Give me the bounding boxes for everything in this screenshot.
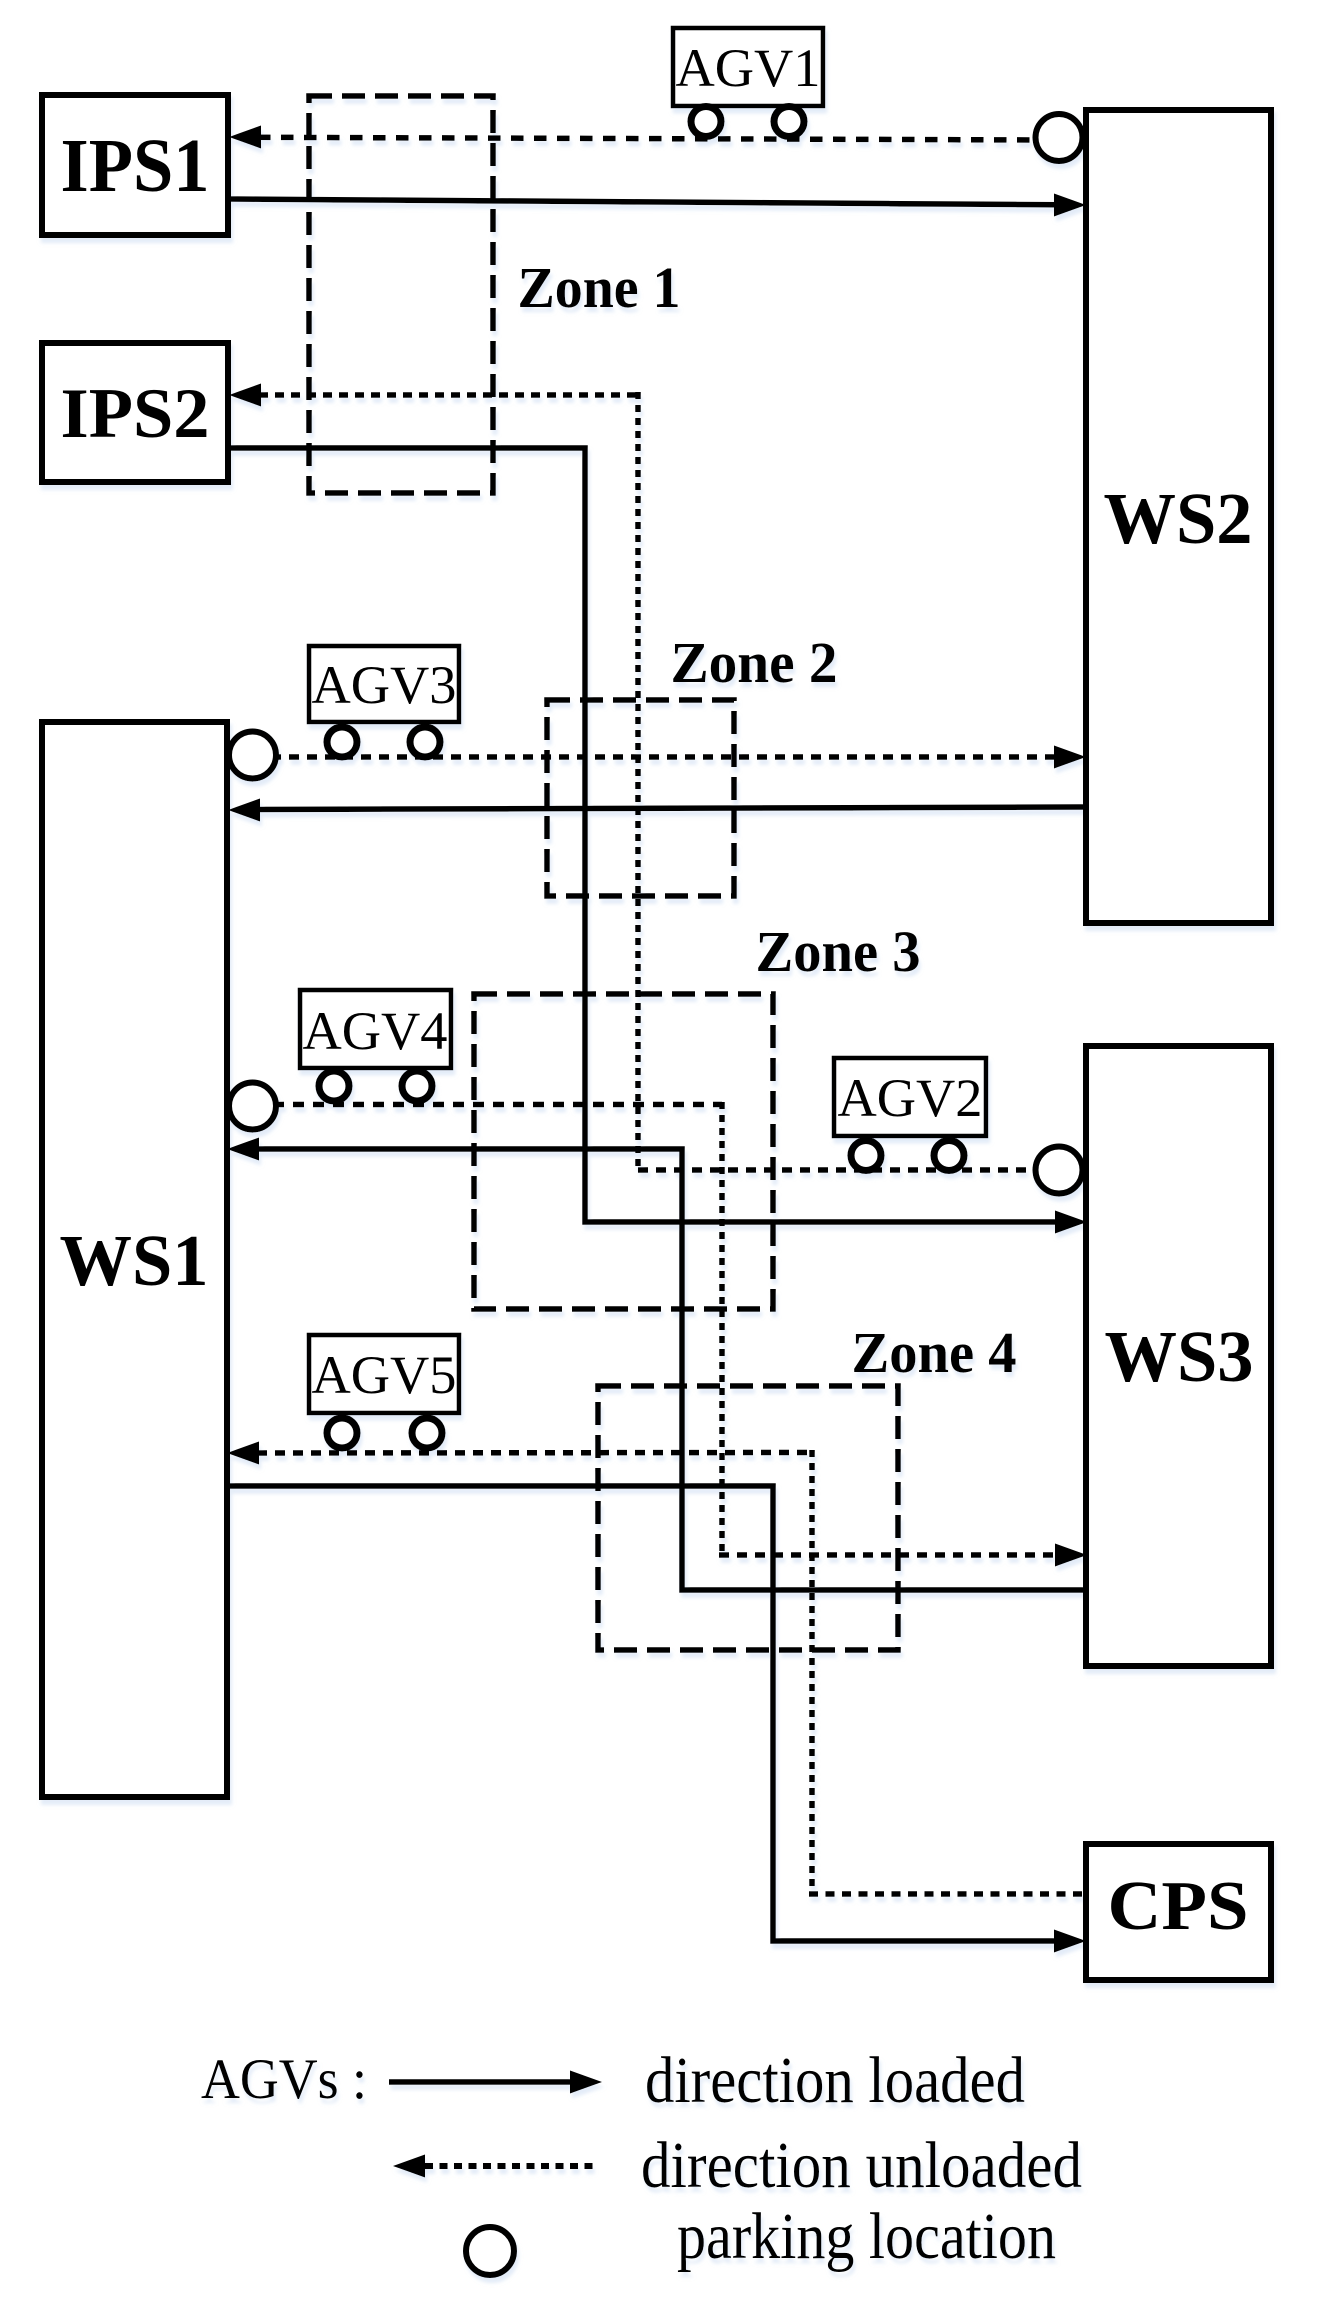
AGV5 symbol: [309, 1335, 459, 1448]
arrowhead at CPS (right): [1054, 1930, 1086, 1953]
wire solid IPS1 to WS2 (loaded): [228, 199, 1058, 205]
svg-text:WS1: WS1: [60, 1220, 209, 1301]
wire dotted WS3 to IPS2 (unloaded, via x=637): [259, 392, 638, 398]
arrowhead at WS3 (right): [1055, 1211, 1087, 1234]
wire solid WS2 to WS1 (loaded): [259, 807, 1086, 810]
arrowhead at WS1 (left): [227, 1138, 259, 1161]
svg-text:AGV5: AGV5: [312, 1345, 457, 1405]
station CPS: [1086, 1844, 1271, 1980]
arrowhead at WS2 (right): [1054, 746, 1086, 769]
parking location circle at WS3: [1036, 1147, 1083, 1194]
wire dotted WS2 to IPS1 (unloaded): [258, 137, 1046, 140]
svg-text:CPS: CPS: [1108, 1868, 1249, 1945]
wire dotted WS1 to WS3 (unloaded, via x=722): [253, 1102, 722, 1108]
svg-text:AGVs :: AGVs :: [201, 2048, 367, 2111]
parking location circle at WS2: [1036, 114, 1083, 161]
svg-text:AGV3: AGV3: [312, 655, 457, 715]
wire dotted CPS to WS1 (unloaded, via x=812): [257, 1450, 812, 1456]
station IPS1: [42, 95, 228, 235]
svg-text:direction unloaded: direction unloaded: [641, 2129, 1082, 2202]
wire dotted WS1 to WS2 (unloaded): [253, 754, 1058, 760]
svg-text:AGV1: AGV1: [676, 38, 821, 98]
arrowhead at WS3 (right): [1055, 1544, 1087, 1567]
wire solid IPS2 to WS3 (loaded, via x=583): [228, 448, 1058, 1222]
svg-text:AGV4: AGV4: [303, 1001, 448, 1061]
legend dotted arrow: [425, 2163, 599, 2169]
wire solid WS1 to CPS (loaded, via x=773): [227, 1486, 1058, 1941]
svg-text:direction loaded: direction loaded: [645, 2044, 1025, 2117]
station IPS2: [42, 343, 228, 482]
station WS2: [1086, 110, 1271, 923]
svg-text:IPS1: IPS1: [61, 124, 210, 208]
arrowhead at WS2 (right): [1054, 194, 1086, 217]
legend parking circle: [466, 2227, 514, 2275]
zone box Zone 3: [474, 994, 773, 1309]
arrowhead at WS1 (left): [227, 1442, 259, 1465]
station WS1: [42, 722, 227, 1797]
svg-text:Zone 4: Zone 4: [852, 1320, 1017, 1385]
zone box Zone 2: [547, 700, 734, 896]
AGV2 symbol: [834, 1058, 986, 1171]
svg-text:Zone 1: Zone 1: [518, 255, 681, 320]
parking location circle at WS1 top: [229, 732, 276, 779]
AGV4 symbol: [300, 990, 451, 1101]
svg-text:WS2: WS2: [1104, 478, 1253, 559]
station WS3: [1086, 1046, 1271, 1666]
zone box Zone 4: [598, 1386, 898, 1650]
legend solid arrow: [389, 2079, 572, 2085]
arrowhead at WS1 (left): [228, 799, 260, 822]
arrowhead at IPS1 (left): [229, 126, 261, 149]
svg-text:Zone 3: Zone 3: [756, 919, 921, 984]
AGV3 symbol: [309, 646, 459, 757]
AGV1 symbol: [673, 28, 823, 137]
arrowhead at IPS2 (left): [229, 384, 261, 407]
parking location circle at WS1 middle: [229, 1083, 276, 1130]
svg-text:AGV2: AGV2: [838, 1068, 983, 1128]
svg-text:IPS2: IPS2: [61, 375, 210, 453]
svg-text:WS3: WS3: [1105, 1316, 1254, 1397]
zone box Zone 1: [309, 96, 493, 493]
svg-text:Zone 2: Zone 2: [671, 630, 838, 695]
wire solid WS3 to WS1 (loaded, via x=682): [258, 1149, 1087, 1590]
svg-text:parking location: parking location: [677, 2200, 1056, 2273]
